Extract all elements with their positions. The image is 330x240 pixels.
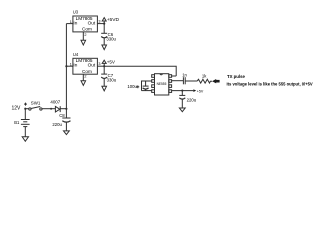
- svg-text:1: 1: [70, 62, 72, 66]
- wire rail to U4 pin 1: [66, 65, 73, 67]
- svg-text:330u: 330u: [106, 37, 116, 42]
- svg-text:+5VD: +5VD: [107, 17, 120, 23]
- wire IC pin to coupling cap: [172, 80, 184, 82]
- svg-text:220u: 220u: [187, 98, 197, 103]
- svg-text:330u: 330u: [107, 77, 117, 82]
- svg-text:In: In: [73, 20, 77, 25]
- svg-text:Com: Com: [82, 27, 92, 32]
- power +5V (IC supply) arrow: [193, 89, 196, 92]
- TX output arrow: [212, 79, 220, 83]
- svg-text:Out: Out: [88, 63, 96, 68]
- ground (U3 com): [81, 40, 86, 45]
- capacitor C3 220u: [179, 91, 185, 108]
- ground (U4 com): [81, 81, 86, 86]
- svg-text:4007: 4007: [50, 100, 60, 105]
- regulator U4: [73, 58, 98, 74]
- svg-text:2: 2: [84, 33, 86, 37]
- capacitor C1 timing 100u: [142, 81, 152, 91]
- switch SW1: [29, 107, 42, 111]
- node diode anode dot: [50, 108, 52, 110]
- capacitor C7 330u: [101, 66, 107, 86]
- svg-text:2: 2: [84, 75, 86, 79]
- svg-text:1k: 1k: [202, 73, 207, 78]
- wire input rail vertical: [65, 24, 67, 109]
- wire battery junction to switch: [25, 108, 29, 110]
- svg-text:3: 3: [98, 62, 100, 66]
- resistor R1 1k: [197, 79, 212, 83]
- node diode/C8/rail junction: [65, 108, 67, 110]
- capacitor C8 220u: [62, 109, 70, 131]
- svg-text:12V: 12V: [12, 106, 22, 112]
- svg-text:1: 1: [70, 20, 72, 24]
- svg-text:TX pulse: TX pulse: [227, 74, 246, 79]
- node 220u junction: [181, 90, 183, 92]
- capacitor plus marker (100u): [136, 85, 139, 88]
- wire U3 pin 2: [82, 32, 84, 40]
- svg-text:SW1: SW1: [31, 101, 41, 106]
- ground (C3): [179, 108, 185, 112]
- op-amp U1 timer NE555: [152, 74, 172, 95]
- svg-text:+5V: +5V: [197, 90, 204, 94]
- wire IC right pin row1 stub: [172, 75, 177, 77]
- svg-text:U4: U4: [73, 52, 79, 57]
- svg-text:Its voltage level is like the: Its voltage level is like the 555 output…: [227, 81, 313, 86]
- svg-text:3: 3: [98, 19, 100, 23]
- svg-text:U3: U3: [73, 10, 79, 15]
- wire rail to U3 pin 1: [66, 23, 73, 25]
- wire +5V rail to IC: [104, 66, 176, 76]
- wire IC pin row4 to +5V tag: [172, 90, 194, 92]
- power +5VD: [102, 18, 106, 24]
- node rail to U4 pin1 junction: [65, 65, 67, 67]
- battery B1: [21, 109, 30, 137]
- svg-text:Com: Com: [82, 69, 92, 74]
- regulator U3: [73, 16, 98, 32]
- svg-text:B1: B1: [14, 120, 20, 125]
- capacitor C6 330u: [101, 24, 107, 45]
- svg-text:+5V: +5V: [107, 59, 116, 64]
- wire U3 pin 3 to +5VD node: [97, 23, 104, 25]
- wire switch to diode: [42, 108, 55, 110]
- ground (battery): [22, 137, 28, 142]
- svg-text:220u: 220u: [52, 122, 62, 127]
- wire U4 pin 3 to +5V node: [97, 65, 104, 67]
- power +5V: [102, 60, 106, 66]
- wire U4 pin 2: [82, 74, 84, 81]
- svg-text:100u: 100u: [127, 84, 137, 89]
- battery plus marker: [24, 103, 27, 106]
- ground (C8): [64, 131, 70, 135]
- node +5V junction: [103, 65, 105, 67]
- node battery/switch junction: [24, 108, 26, 110]
- svg-text:Out: Out: [88, 20, 96, 25]
- svg-text:1n: 1n: [182, 72, 187, 77]
- svg-text:C8: C8: [59, 113, 65, 118]
- svg-text:NE555: NE555: [157, 82, 167, 86]
- ground (C6): [102, 45, 107, 50]
- diode D1 1N4007: [55, 106, 66, 112]
- ground (C7): [102, 86, 107, 91]
- capacitor C2 coupling 1n: [183, 77, 197, 84]
- svg-text:In: In: [73, 63, 77, 68]
- node +5VD junction: [103, 23, 105, 25]
